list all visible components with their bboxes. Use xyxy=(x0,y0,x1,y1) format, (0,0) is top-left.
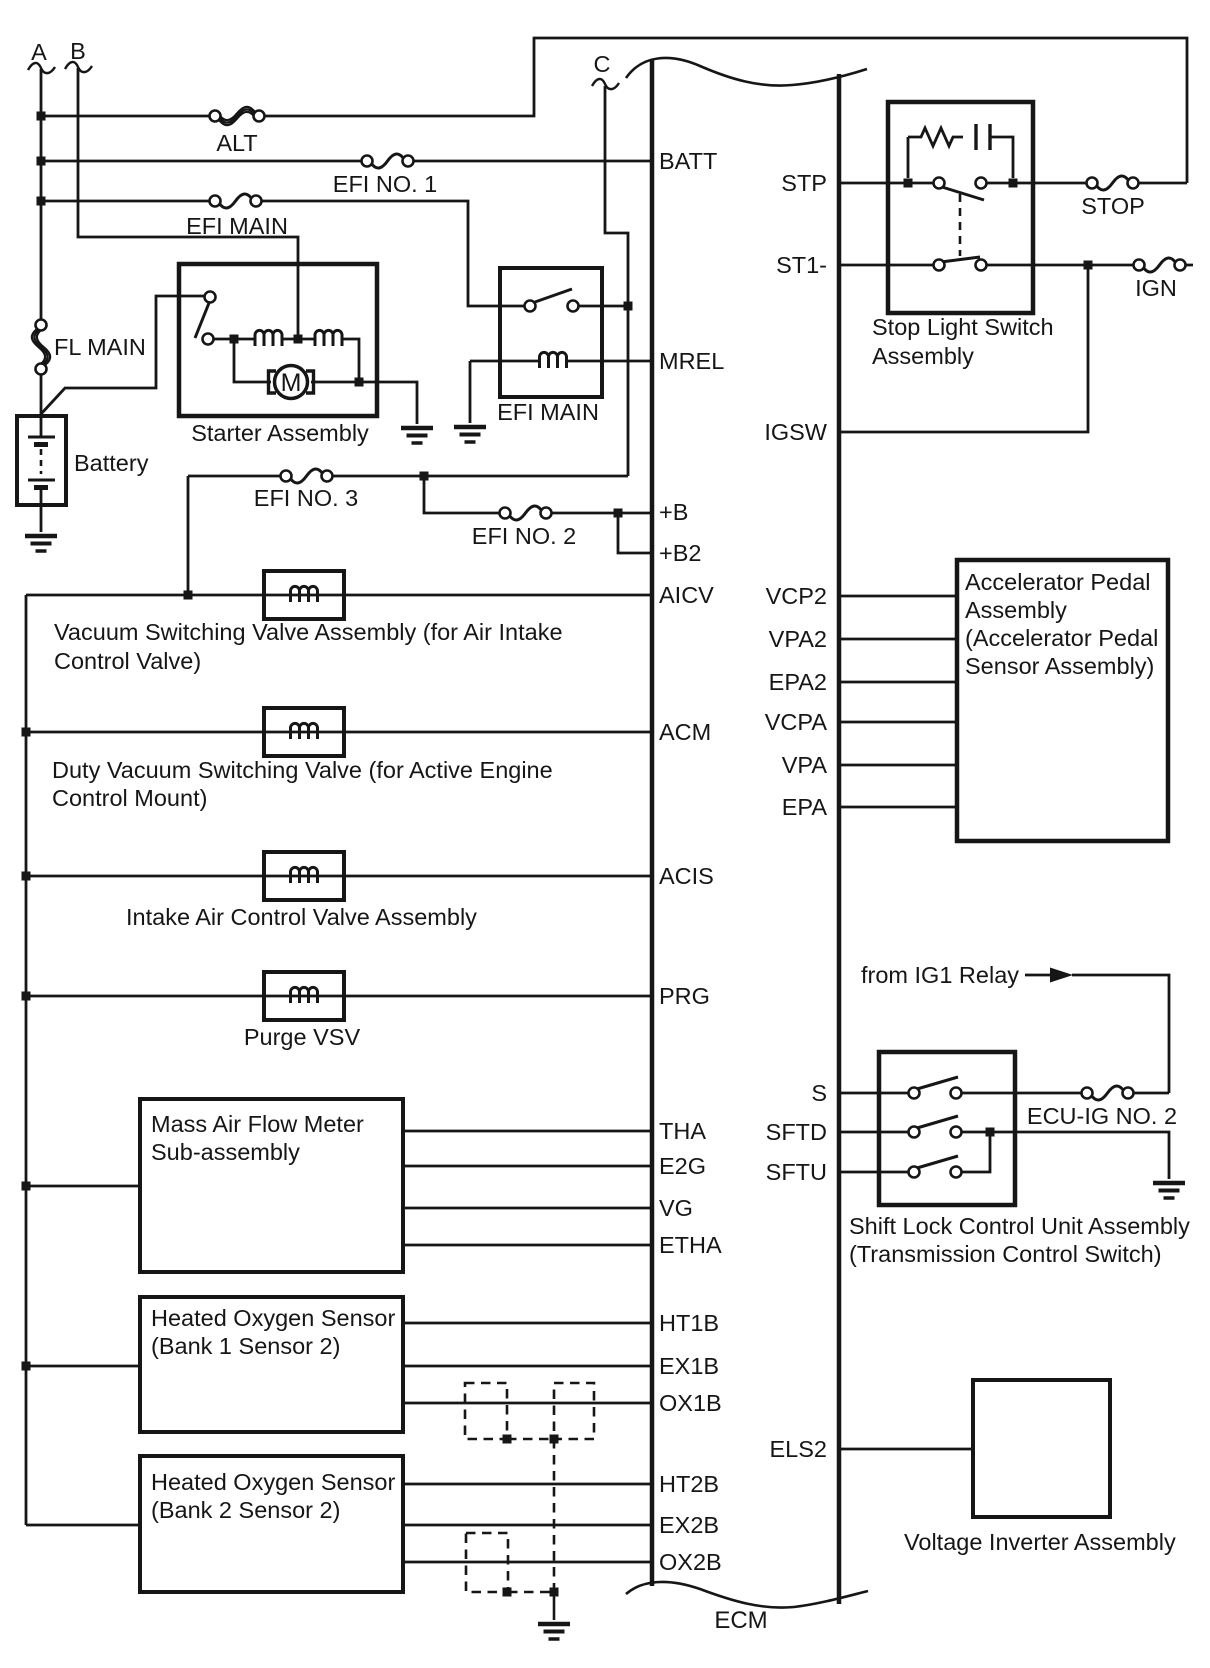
svg-text:Vacuum Switching Valve Assembl: Vacuum Switching Valve Assembly (for Air… xyxy=(54,619,563,645)
svg-text:Assembly: Assembly xyxy=(872,343,974,369)
svg-text:ECU-IG NO. 2: ECU-IG NO. 2 xyxy=(1027,1103,1177,1129)
svg-text:HT1B: HT1B xyxy=(659,1310,719,1336)
svg-text:(Bank 1 Sensor 2): (Bank 1 Sensor 2) xyxy=(151,1333,340,1359)
svg-text:IGN: IGN xyxy=(1135,275,1177,301)
svg-text:Duty Vacuum Switching Valve (f: Duty Vacuum Switching Valve (for Active … xyxy=(52,757,553,783)
svg-text:VG: VG xyxy=(659,1195,693,1221)
svg-text:EFI MAIN: EFI MAIN xyxy=(497,399,599,425)
svg-text:M: M xyxy=(281,369,302,397)
svg-text:EFI NO. 2: EFI NO. 2 xyxy=(472,523,576,549)
svg-text:MREL: MREL xyxy=(659,348,724,374)
svg-text:Heated Oxygen Sensor: Heated Oxygen Sensor xyxy=(151,1305,395,1331)
svg-text:EX1B: EX1B xyxy=(659,1353,719,1379)
svg-text:+B: +B xyxy=(659,499,688,525)
svg-text:ACIS: ACIS xyxy=(659,863,714,889)
svg-text:OX2B: OX2B xyxy=(659,1549,722,1575)
svg-text:Purge VSV: Purge VSV xyxy=(244,1024,361,1050)
svg-text:EFI NO. 1: EFI NO. 1 xyxy=(333,171,437,197)
svg-text:PRG: PRG xyxy=(659,983,710,1009)
svg-text:Shift Lock Control Unit Assemb: Shift Lock Control Unit Assembly xyxy=(849,1213,1190,1239)
svg-text:BATT: BATT xyxy=(659,148,717,174)
svg-text:VPA2: VPA2 xyxy=(769,626,827,652)
svg-text:Starter Assembly: Starter Assembly xyxy=(191,420,369,446)
svg-text:VCPA: VCPA xyxy=(765,709,828,735)
svg-text:Mass Air Flow Meter: Mass Air Flow Meter xyxy=(151,1111,364,1137)
svg-text:HT2B: HT2B xyxy=(659,1471,719,1497)
svg-text:Heated Oxygen Sensor: Heated Oxygen Sensor xyxy=(151,1469,395,1495)
svg-text:AICV: AICV xyxy=(659,582,714,608)
svg-text:(Transmission Control Switch): (Transmission Control Switch) xyxy=(849,1241,1162,1267)
svg-text:SFTD: SFTD xyxy=(766,1119,827,1145)
svg-text:EPA2: EPA2 xyxy=(769,669,827,695)
svg-text:Sensor Assembly): Sensor Assembly) xyxy=(965,653,1154,679)
svg-text:Battery: Battery xyxy=(74,450,149,476)
svg-text:A: A xyxy=(31,39,47,65)
svg-text:ACM: ACM xyxy=(659,719,711,745)
svg-text:STOP: STOP xyxy=(1081,193,1145,219)
svg-text:ST1-: ST1- xyxy=(776,252,827,278)
svg-text:OX1B: OX1B xyxy=(659,1390,722,1416)
svg-text:ALT: ALT xyxy=(216,130,257,156)
svg-text:S: S xyxy=(811,1080,827,1106)
svg-text:(Bank 2 Sensor 2): (Bank 2 Sensor 2) xyxy=(151,1497,340,1523)
svg-text:Intake Air Control Valve Assem: Intake Air Control Valve Assembly xyxy=(126,904,477,930)
svg-text:EFI MAIN: EFI MAIN xyxy=(186,213,288,239)
svg-text:SFTU: SFTU xyxy=(766,1159,827,1185)
svg-text:B: B xyxy=(70,38,86,64)
svg-text:EX2B: EX2B xyxy=(659,1512,719,1538)
svg-text:IGSW: IGSW xyxy=(764,419,827,445)
svg-text:E2G: E2G xyxy=(659,1153,706,1179)
svg-text:VPA: VPA xyxy=(782,752,828,778)
svg-text:+B2: +B2 xyxy=(659,540,701,566)
svg-text:Assembly: Assembly xyxy=(965,597,1067,623)
svg-text:Stop Light Switch: Stop Light Switch xyxy=(872,314,1054,340)
svg-text:Accelerator Pedal: Accelerator Pedal xyxy=(965,569,1151,595)
svg-text:EFI NO. 3: EFI NO. 3 xyxy=(254,485,358,511)
svg-text:Sub-assembly: Sub-assembly xyxy=(151,1139,300,1165)
svg-text:Voltage Inverter Assembly: Voltage Inverter Assembly xyxy=(904,1529,1176,1555)
svg-text:Control Valve): Control Valve) xyxy=(54,648,201,674)
svg-text:FL MAIN: FL MAIN xyxy=(54,334,146,360)
svg-text:THA: THA xyxy=(659,1118,706,1144)
svg-text:ELS2: ELS2 xyxy=(770,1436,828,1462)
svg-text:Control Mount): Control Mount) xyxy=(52,785,207,811)
svg-text:from IG1 Relay: from IG1 Relay xyxy=(861,962,1019,988)
svg-text:STP: STP xyxy=(781,170,827,196)
svg-text:EPA: EPA xyxy=(782,794,828,820)
svg-text:VCP2: VCP2 xyxy=(766,583,827,609)
svg-text:(Accelerator Pedal: (Accelerator Pedal xyxy=(965,625,1158,651)
svg-text:ECM: ECM xyxy=(714,1607,767,1634)
svg-text:ETHA: ETHA xyxy=(659,1232,722,1258)
svg-text:C: C xyxy=(594,51,611,77)
